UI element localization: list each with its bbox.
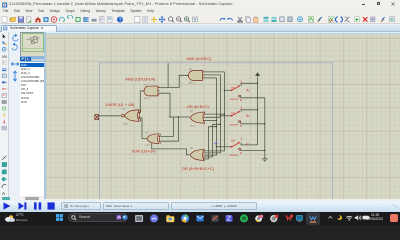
svg-text:0: 0 — [240, 98, 242, 102]
wire: OR U3 in1 — [205, 113, 225, 115]
svg-text:A: A — [2, 191, 6, 196]
logic probe at sheet edge — [95, 114, 99, 119]
svg-text:AND (U2*U3*U4): AND (U2*U3*U4) — [125, 76, 155, 81]
svg-text:SW-SPDT: SW-SPDT — [230, 99, 239, 101]
svg-text:0: 0 — [240, 151, 242, 155]
svg-text:AND_3: AND_3 — [144, 96, 151, 99]
wire: AND U2 in1 to A bus — [204, 71, 224, 73]
wire: AND U1 out down to XNOR in1 — [137, 91, 144, 113]
junction: bus C / OR U3 in3 — [216, 119, 217, 120]
power terminal arrow — [256, 73, 260, 77]
wire: switch A bottom throw to ground rail — [241, 96, 265, 98]
wire: switch B bottom throw to ground rail — [241, 122, 265, 124]
svg-text:SW3: SW3 — [231, 140, 235, 142]
wire: ground rail — [264, 97, 266, 158]
svg-text:OR (A+B+C): OR (A+B+C) — [187, 103, 210, 108]
wire: switch A common — [224, 89, 229, 91]
wire: net stub up to border — [167, 63, 169, 87]
wire: OR U3 out left and up to AND U1 in2 — [159, 93, 190, 117]
wire: XOR in2 to junction — [161, 117, 179, 141]
junction: ground rail / switch C throw — [264, 149, 265, 150]
wire: OR U6 in4 via B2 riser — [204, 124, 220, 157]
wire: bus A vertical — [204, 72, 224, 151]
junction: bus B / switch B common — [220, 115, 221, 116]
junction: power rail / switch A throw — [257, 82, 258, 83]
svg-text:AND_3: AND_3 — [189, 81, 196, 84]
wires — [98, 63, 264, 159]
wire: OR U3 in2 — [205, 116, 221, 118]
gate: XOR U4 (mirrored) — [145, 132, 160, 147]
wire: switch B common — [221, 114, 230, 116]
junction: OR U3 output / XOR riser — [178, 116, 179, 117]
junction: bus C / U6 riser — [216, 126, 217, 127]
svg-text:LBL: LBL — [2, 54, 8, 58]
svg-text:1: 1 — [240, 136, 242, 140]
wire: power rail — [241, 77, 258, 145]
junction: bus C / switch C common — [216, 146, 217, 147]
switch SW3 C — [230, 136, 250, 157]
wire: bus B vertical — [204, 75, 220, 153]
svg-text:OR_3: OR_3 — [190, 125, 196, 127]
ground symbol — [262, 159, 267, 162]
wire: OR U3 in3 — [205, 119, 217, 121]
svg-text:XNOR: XNOR — [123, 123, 129, 125]
gate: OR U6 (bottom, 5-input, mirrored) — [190, 148, 205, 160]
switch SW1 A — [230, 79, 250, 101]
gate: AND_3 U1 (left, mirrored) — [142, 84, 159, 99]
origin marker — [214, 141, 219, 146]
svg-text:SW2: SW2 — [231, 113, 235, 115]
svg-text:OR (A+B+B+C+C): OR (A+B+B+C+C) — [182, 166, 215, 171]
svg-text:C: C — [246, 142, 249, 146]
svg-text:@: @ — [84, 17, 89, 22]
junction: bus A / OR U3 in1 — [224, 113, 225, 114]
svg-text:SW-SPDT: SW-SPDT — [230, 124, 239, 126]
junction: ground rail / switch B throw — [264, 123, 265, 124]
svg-text:SW1: SW1 — [231, 87, 235, 89]
wire: switch C common — [217, 145, 230, 147]
wire: XOR out up to XNOR in2 — [137, 118, 147, 139]
svg-text:XNOR (U1 + U5): XNOR (U1 + U5) — [105, 102, 135, 107]
wire: XOR in1 to junction — [161, 117, 174, 136]
svg-text:XOR: XOR — [145, 145, 150, 147]
canvas background grid — [46, 34, 400, 200]
svg-text:SW-SPDT: SW-SPDT — [230, 155, 239, 157]
junction: bus B / U6 riser — [220, 123, 221, 124]
svg-text:AND (A'A'B'C): AND (A'A'B'C) — [187, 56, 212, 61]
svg-text:0: 0 — [240, 124, 242, 128]
gate: AND_3 U2 (top right, mirrored) — [187, 68, 204, 84]
wire: XNOR output to probe — [98, 114, 120, 116]
wire: OR U6 output — [152, 143, 190, 155]
wire: AND U2 in3 to C bus — [204, 77, 216, 79]
sheet border — [100, 62, 333, 199]
junction: bus A / switch A common — [224, 89, 225, 90]
svg-text:1: 1 — [240, 79, 242, 83]
gate: XNOR U5 (mirrored, bubble left) — [122, 108, 142, 125]
wire: AND U2 in2 to B bus — [204, 74, 220, 76]
wire: bus C vertical — [204, 78, 216, 155]
wire: OR U6 in5 via C2 riser — [204, 126, 216, 158]
junction: power rail / switch B throw — [257, 109, 258, 110]
svg-text:?: ? — [119, 17, 122, 23]
svg-text:1: 1 — [240, 105, 242, 109]
switch SW2 B — [230, 105, 250, 127]
wire: switch A top throw to power rail — [241, 83, 258, 86]
wire: AND U1 in1 from AND U2 out — [159, 75, 189, 87]
junction: OR U3 output / U1 riser — [169, 116, 170, 117]
svg-text:XOR (U3+U4): XOR (U3+U4) — [132, 148, 157, 153]
wire: switch C bottom throw to ground rail — [241, 149, 265, 151]
wire: switch B top throw to power rail — [241, 109, 258, 111]
gate: OR_3 U3 (mirrored) — [190, 110, 205, 127]
